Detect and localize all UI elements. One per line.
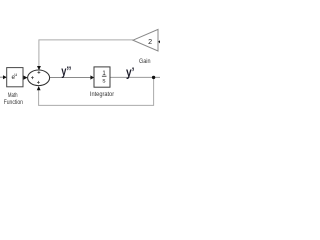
gain block triangle xyxy=(133,29,158,51)
sum plus sign top xyxy=(38,71,41,74)
wire top feedback xyxy=(39,40,133,66)
svg-text:Integrator: Integrator xyxy=(90,91,115,98)
wire gain input stub xyxy=(158,41,160,43)
arrowhead math output into sum xyxy=(23,76,27,80)
node junction dot xyxy=(152,76,155,79)
sum block ellipse xyxy=(28,70,50,86)
svg-text:y’’: y’’ xyxy=(61,63,71,78)
svg-text:Function: Function xyxy=(4,99,23,106)
wire sum to integrator xyxy=(50,77,91,79)
sum plus sign left xyxy=(31,76,34,79)
svg-text:2: 2 xyxy=(148,37,152,46)
arrowhead into integrator xyxy=(90,75,94,79)
sum plus sign bottom xyxy=(37,81,40,84)
wire input stub xyxy=(0,76,3,78)
svg-text:u: u xyxy=(14,73,17,78)
wire bottom feedback xyxy=(39,77,154,105)
math function block U1 xyxy=(7,68,23,87)
integrator block U2 xyxy=(94,67,110,87)
arrowhead bottom into sum xyxy=(37,86,41,90)
arrowhead into math function xyxy=(3,75,7,79)
svg-text:s: s xyxy=(102,78,105,85)
arrowhead top into sum xyxy=(37,66,41,70)
svg-text:y’: y’ xyxy=(126,65,135,80)
svg-text:Gain: Gain xyxy=(139,58,151,65)
arrowhead gain input at edge xyxy=(158,40,160,43)
wire integrator to right edge xyxy=(110,76,160,78)
